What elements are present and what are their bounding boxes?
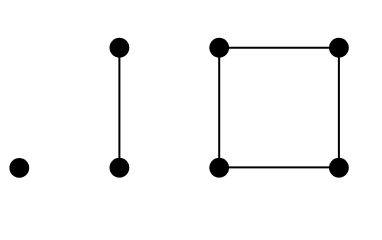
wire: square left edge bbox=[218, 48, 220, 168]
vertex dot: single point figure bbox=[9, 158, 29, 178]
wire: square right edge bbox=[338, 48, 340, 168]
node: segment bottom vertex bbox=[110, 158, 130, 178]
node: segment top vertex bbox=[110, 38, 130, 58]
wire: vertical edge of segment figure bbox=[118, 48, 120, 168]
node: square bottom-left vertex bbox=[209, 158, 229, 178]
wire: square bottom edge bbox=[219, 166, 339, 168]
node: square top-right vertex bbox=[329, 38, 349, 58]
wire: square top edge bbox=[219, 47, 339, 49]
node: square top-left vertex bbox=[209, 38, 229, 58]
node: square bottom-right vertex bbox=[329, 158, 349, 178]
